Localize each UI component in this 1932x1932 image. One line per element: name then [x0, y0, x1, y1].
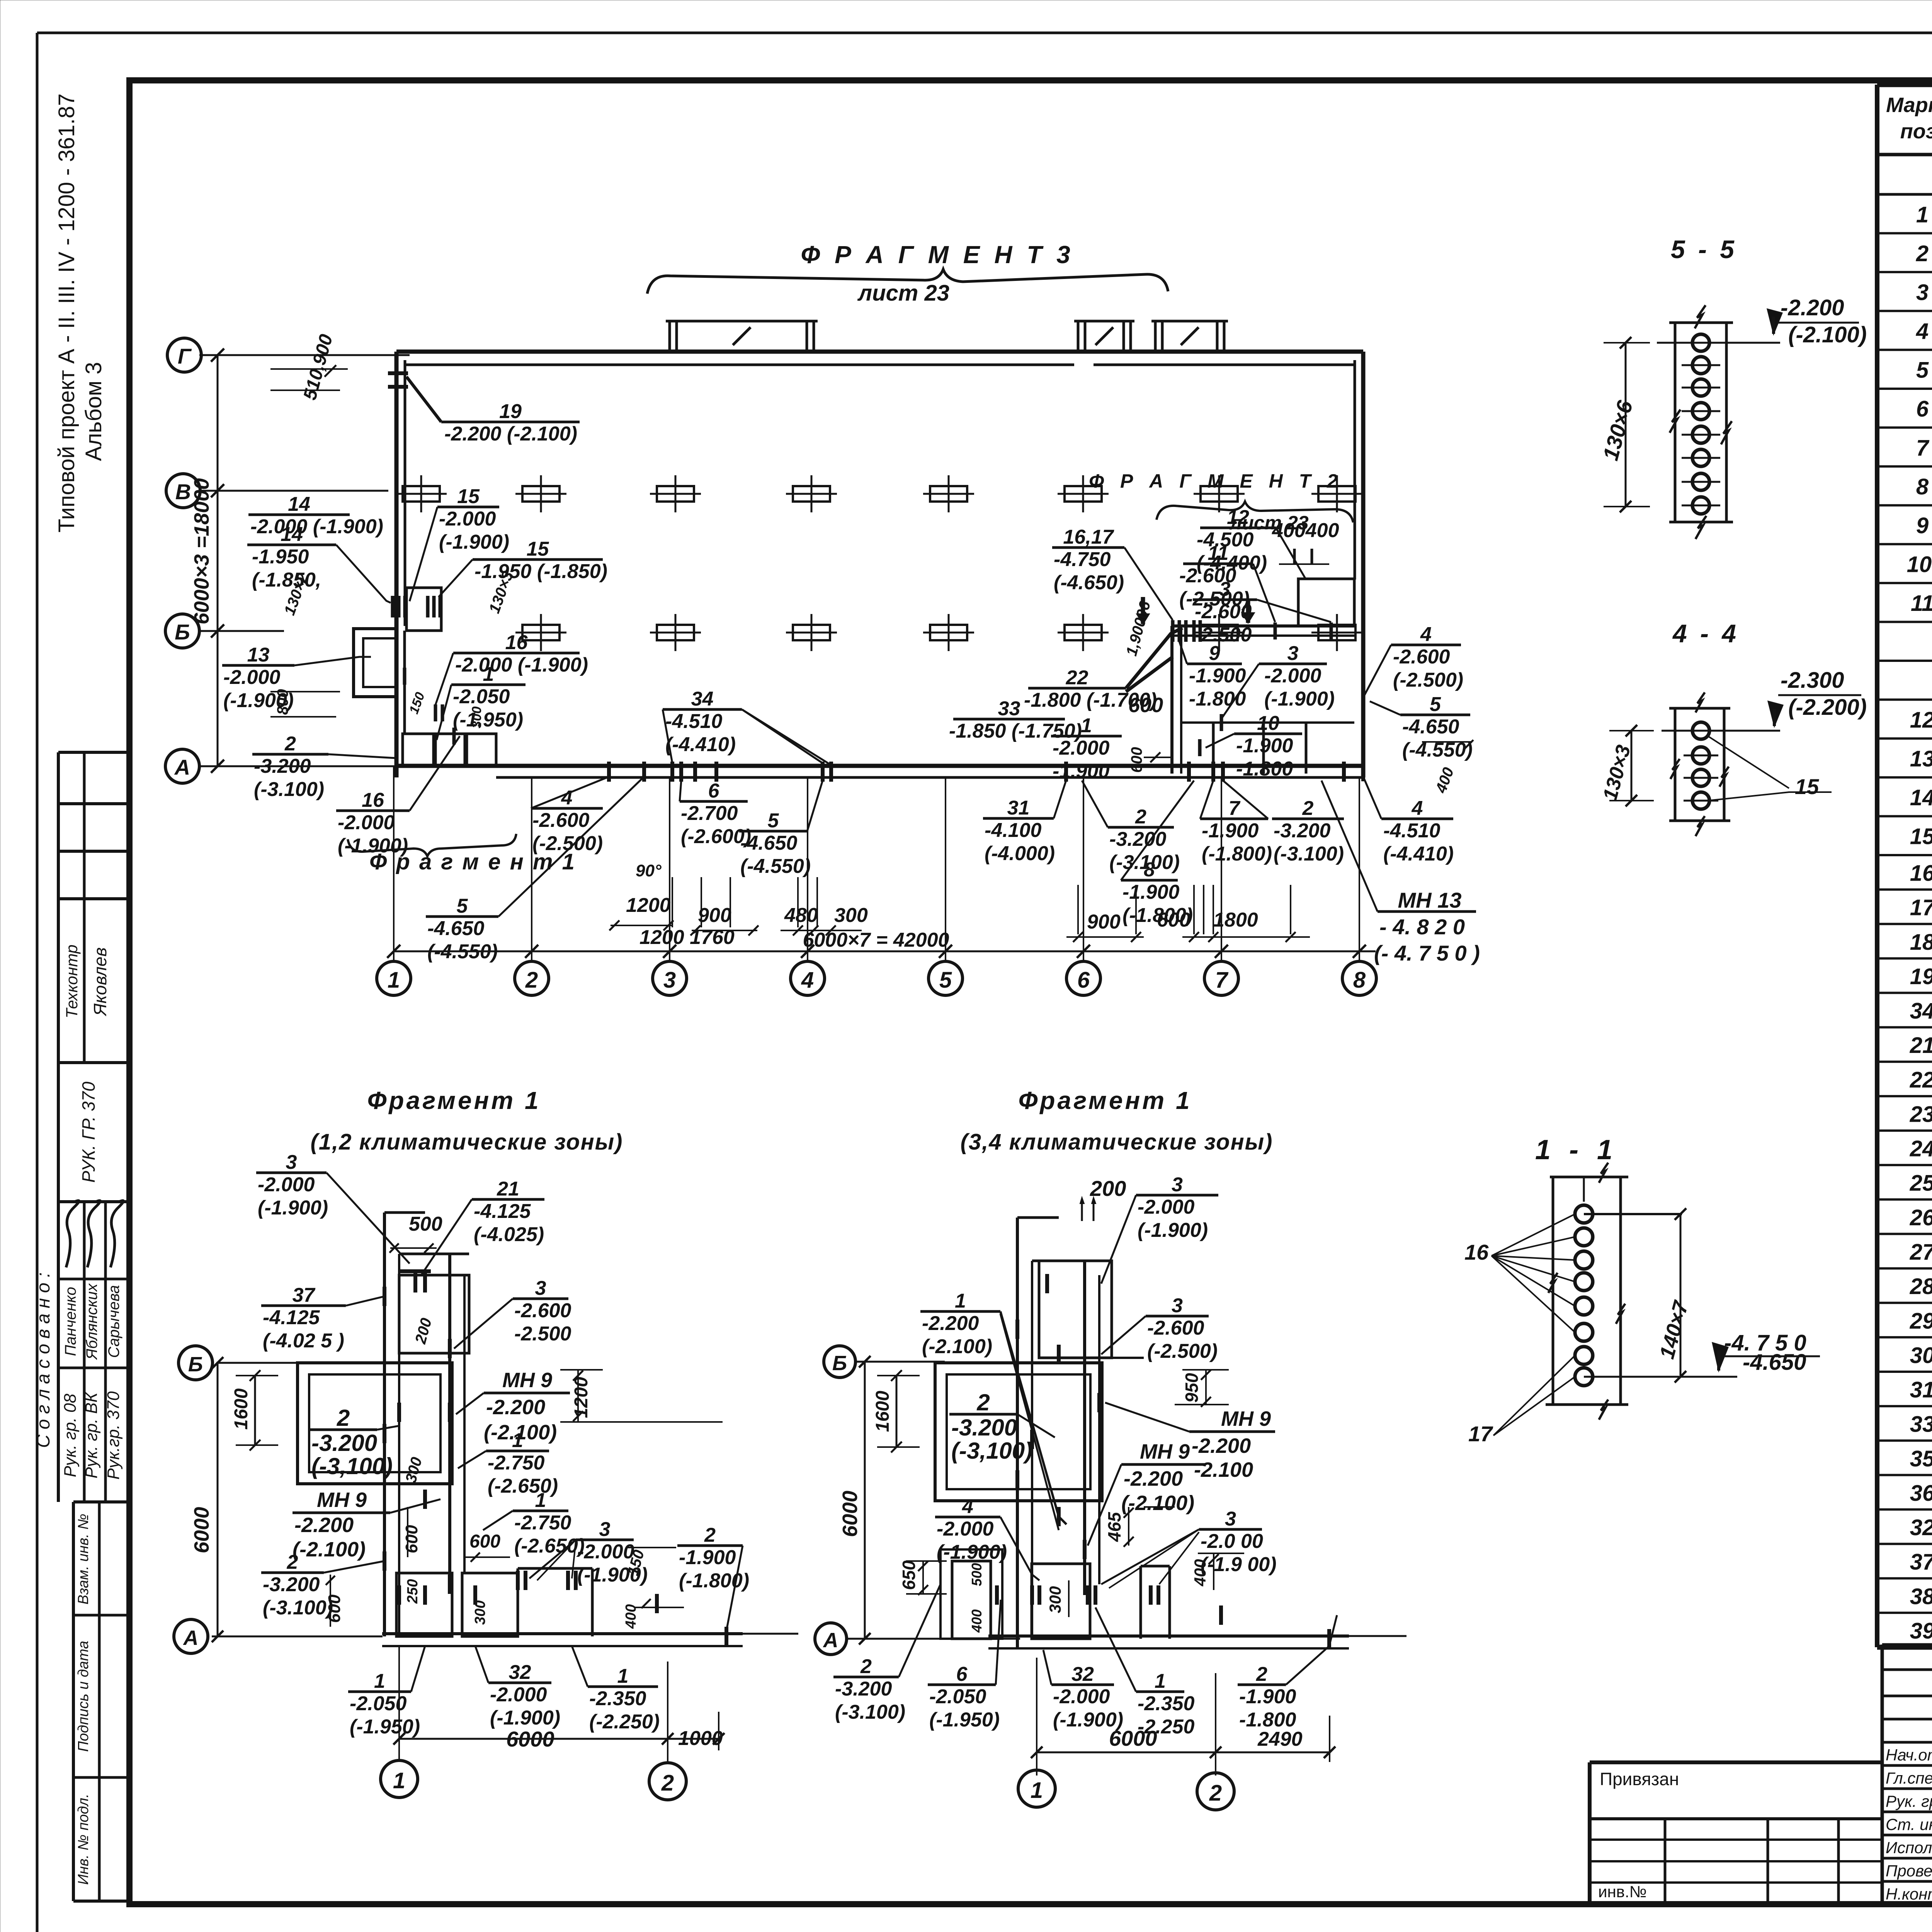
svg-text:12: 12	[1910, 707, 1932, 733]
svg-text:600: 600	[402, 1525, 421, 1553]
svg-text:Рук. гр. ВК: Рук. гр. ВК	[82, 1392, 101, 1479]
frag12 ann 1 -2.350	[588, 1685, 658, 1688]
svg-text:-2.200: -2.200	[1124, 1467, 1183, 1490]
svg-text:16: 16	[1464, 1240, 1489, 1264]
svg-text:1600: 1600	[231, 1388, 252, 1430]
ann 16,17	[1052, 546, 1124, 549]
frag34 ann 2 bottom-left	[833, 1676, 899, 1679]
svg-text:6: 6	[1916, 396, 1929, 422]
svg-text:4: 4	[1916, 319, 1929, 344]
frag34 ann 3 top	[1136, 1194, 1218, 1197]
svg-text:14: 14	[281, 523, 303, 546]
frag12 walls	[383, 1213, 386, 1636]
svg-text:3: 3	[1225, 1508, 1236, 1530]
section 1-1 pipe circles	[1575, 1205, 1593, 1223]
plan bottom wall (double line)	[396, 764, 1363, 768]
ann 3 f2b	[1259, 663, 1327, 665]
svg-text:-2.000: -2.000	[439, 508, 496, 530]
svg-text:950: 950	[1182, 1373, 1202, 1403]
svg-text:90°: 90°	[636, 861, 662, 880]
svg-text:465: 465	[1104, 1512, 1124, 1542]
svg-text:-2.000: -2.000	[1264, 665, 1321, 687]
ann 1 left	[451, 684, 526, 686]
svg-text:24: 24	[1910, 1136, 1932, 1162]
svg-text:-2.050: -2.050	[350, 1692, 407, 1715]
svg-text:Б: Б	[832, 1352, 847, 1375]
ann 9	[1187, 663, 1242, 665]
thick leader from node 22	[1126, 628, 1182, 688]
svg-text:-1.800: -1.800	[1189, 688, 1246, 710]
svg-text:10.: 10.	[1907, 552, 1932, 577]
svg-text:-2.200 (-2.100): -2.200 (-2.100)	[444, 423, 577, 445]
svg-text:-2.200: -2.200	[1192, 1434, 1251, 1458]
column symbols row В and Б	[403, 486, 440, 502]
frag34 ann 6	[928, 1684, 996, 1686]
svg-text:(-1.950): (-1.950)	[453, 709, 523, 731]
svg-text:(-1.900): (-1.900)	[1264, 688, 1335, 710]
svg-text:(-1.800): (-1.800)	[1202, 843, 1272, 865]
svg-text:-2.200: -2.200	[922, 1312, 979, 1335]
frag34 walls	[1016, 1218, 1019, 1648]
svg-text:37: 37	[293, 1284, 316, 1306]
svg-text:-1.950 (-1.850): -1.950 (-1.850)	[474, 560, 607, 583]
svg-text:-2.300: -2.300	[1781, 668, 1844, 693]
svg-text:1: 1	[955, 1290, 966, 1312]
svg-text:34: 34	[1910, 998, 1932, 1024]
svg-text:-2.600: -2.600	[1195, 600, 1252, 623]
svg-text:-4.100: -4.100	[985, 819, 1042, 842]
svg-text:-2.000 (-1.900): -2.000 (-1.900)	[250, 515, 383, 538]
frag34 bottom rooms	[952, 1561, 991, 1639]
ann 33	[953, 718, 1065, 721]
svg-text:(-4.025): (-4.025)	[474, 1223, 544, 1246]
svg-text:1600: 1600	[872, 1391, 893, 1432]
svg-text:(-1.850,: (-1.850,	[252, 569, 321, 591]
svg-text:4 - 4: 4 - 4	[1672, 619, 1739, 648]
axis line Г	[199, 354, 410, 356]
frag12 ann 3	[256, 1172, 327, 1174]
svg-text:600: 600	[469, 1531, 500, 1552]
svg-text:-2.000 (-1.900): -2.000 (-1.900)	[455, 654, 588, 676]
svg-text:4: 4	[962, 1495, 973, 1518]
privyazan block	[1590, 1760, 1882, 1764]
svg-text:300: 300	[469, 706, 484, 728]
svg-text:16,17: 16,17	[1063, 526, 1114, 548]
bottom-left room cluster	[406, 588, 441, 631]
svg-text:Привязан: Привязан	[1600, 1769, 1679, 1789]
frag34 node bars	[1045, 1274, 1049, 1293]
svg-text:(-4.550): (-4.550)	[427, 940, 498, 963]
svg-text:-2.600: -2.600	[532, 809, 590, 832]
ann 14 a	[248, 514, 350, 516]
svg-text:25: 25	[1910, 1171, 1932, 1196]
svg-text:1: 1	[1031, 1778, 1043, 1803]
svg-text:38: 38	[1910, 1584, 1932, 1609]
svg-text:С о г л а с о в а н о :: С о г л а с о в а н о :	[33, 1272, 54, 1448]
frag12 ann 21	[472, 1198, 544, 1201]
svg-text:400: 400	[969, 1609, 985, 1633]
svg-text:(-1.900): (-1.900)	[1138, 1219, 1208, 1242]
svg-text:28: 28	[1910, 1274, 1932, 1299]
ann 7	[1200, 818, 1268, 820]
section 4-4 elevation -2.300	[1778, 694, 1861, 696]
svg-text:36: 36	[1910, 1481, 1932, 1506]
svg-text:6000: 6000	[838, 1491, 862, 1537]
svg-text:29: 29	[1910, 1308, 1932, 1333]
svg-text:-3.200: -3.200	[254, 755, 311, 777]
ann 12	[1200, 527, 1276, 529]
frag12 axis А	[212, 1636, 383, 1638]
svg-text:1 - 1: 1 - 1	[1535, 1134, 1618, 1165]
svg-text:10: 10	[1257, 712, 1279, 735]
svg-text:(-4.550): (-4.550)	[740, 855, 811, 878]
plan outer walls (double line)	[396, 350, 1363, 354]
frag12 ann 2 -3.200 bottom	[261, 1571, 324, 1574]
svg-text:(-1.950): (-1.950)	[350, 1716, 420, 1738]
svg-text:Исполн.: Исполн.	[1886, 1838, 1932, 1857]
svg-text:500: 500	[969, 1563, 985, 1586]
left vertical dimension line 6000x3=18000	[217, 355, 219, 766]
svg-text:(-3.100): (-3.100)	[835, 1701, 905, 1723]
svg-text:-2.350: -2.350	[589, 1687, 646, 1710]
svg-text:22: 22	[1066, 667, 1088, 689]
ann 4 bottom	[531, 807, 603, 810]
svg-text:1: 1	[1081, 714, 1092, 737]
svg-text:Подпись и дата: Подпись и дата	[75, 1641, 92, 1752]
frag12 ann 2 room	[310, 1429, 377, 1431]
fragment2 upper-right box	[1298, 579, 1354, 626]
svg-text:(-2.500): (-2.500)	[1393, 669, 1463, 691]
ann 11	[1183, 563, 1253, 565]
svg-text:1: 1	[393, 1768, 405, 1793]
svg-text:-2.050: -2.050	[929, 1685, 986, 1708]
svg-text:-1.900: -1.900	[679, 1546, 736, 1569]
svg-text:1: 1	[535, 1489, 546, 1512]
parts table header row line	[1877, 153, 1932, 156]
svg-text:(-2.250): (-2.250)	[589, 1711, 660, 1733]
title block signature grid	[1881, 1645, 1884, 1904]
ann 15 a	[437, 506, 499, 509]
svg-text:Сарычева: Сарычева	[105, 1285, 122, 1358]
svg-text:39: 39	[1910, 1618, 1932, 1643]
svg-text:21: 21	[1910, 1033, 1932, 1058]
svg-text:600: 600	[1128, 747, 1145, 773]
section 5-5 break marks	[1695, 305, 1706, 328]
section 5-5 dim line 130x6	[1625, 343, 1627, 507]
frag12 axis Б	[216, 1362, 305, 1364]
bottom axis circles 1-8	[377, 961, 411, 995]
ann 1 right	[1051, 735, 1122, 738]
left protrusion room (fragment1 area)	[354, 629, 396, 697]
svg-text:8: 8	[1353, 968, 1366, 993]
ann 8	[1121, 879, 1178, 882]
svg-text:400400: 400400	[1272, 519, 1339, 542]
svg-text:11: 11	[1208, 542, 1229, 565]
svg-text:33: 33	[1910, 1412, 1932, 1437]
svg-text:6000: 6000	[506, 1727, 554, 1751]
svg-text:1000: 1000	[678, 1727, 723, 1750]
svg-text:-4.125: -4.125	[474, 1200, 531, 1223]
svg-text:-2.750: -2.750	[514, 1512, 571, 1534]
frag12 ann 2 -1.900	[677, 1544, 743, 1547]
frag12 axis circles 1 2	[381, 1760, 418, 1798]
svg-text:1: 1	[1155, 1670, 1166, 1692]
svg-text:МН 9: МН 9	[1221, 1407, 1271, 1430]
svg-text:3: 3	[1287, 642, 1299, 665]
svg-text:11: 11	[1911, 591, 1932, 616]
section 4-4 break marks	[1696, 692, 1705, 713]
frag34 ann 4	[935, 1516, 1000, 1519]
svg-text:5: 5	[939, 968, 952, 993]
svg-text:Провер.: Провер.	[1886, 1862, 1932, 1880]
svg-text:Б: Б	[188, 1353, 203, 1376]
svg-text:РУК. ГР. 370: РУК. ГР. 370	[78, 1082, 99, 1183]
svg-text:600: 600	[1128, 694, 1163, 717]
svg-text:-2.350: -2.350	[1138, 1692, 1195, 1715]
section 4-4 pipe circles	[1692, 722, 1709, 739]
axis line Б	[199, 630, 284, 632]
svg-text:-3.200: -3.200	[1274, 820, 1331, 842]
axis circle В	[166, 474, 200, 508]
svg-text:250: 250	[405, 1579, 421, 1604]
svg-text:5: 5	[768, 810, 779, 832]
ann 16 top	[453, 652, 580, 655]
svg-text:-1.800: -1.800	[1236, 758, 1293, 780]
svg-text:5: 5	[1430, 693, 1441, 716]
ann 5 right	[1400, 714, 1470, 716]
frag34 vert dim 6000	[864, 1362, 866, 1639]
parts table row lines	[1877, 232, 1932, 235]
svg-text:26: 26	[1910, 1205, 1932, 1230]
svg-text:(-4.000): (-4.000)	[985, 842, 1055, 865]
svg-text:3: 3	[1172, 1294, 1183, 1317]
axis line А	[199, 765, 396, 767]
svg-text:2: 2	[1209, 1781, 1222, 1806]
section 1-1 walls	[1552, 1177, 1554, 1405]
svg-text:(-2.100): (-2.100)	[293, 1538, 366, 1561]
svg-text:-2.200: -2.200	[1781, 295, 1844, 320]
svg-text:Техконтр: Техконтр	[63, 945, 81, 1019]
svg-text:300: 300	[472, 1600, 488, 1625]
svg-text:17: 17	[1468, 1422, 1493, 1446]
svg-text:6000: 6000	[190, 1507, 213, 1553]
svg-text:-2.500: -2.500	[514, 1323, 571, 1345]
svg-text:9: 9	[1209, 642, 1220, 665]
svg-text:5: 5	[1916, 358, 1929, 383]
frag34 axis Б	[855, 1361, 945, 1363]
svg-text:Панченко: Панченко	[62, 1287, 79, 1356]
svg-text:32: 32	[1910, 1515, 1932, 1540]
frag34 ann 2 -1.900	[1238, 1684, 1286, 1686]
svg-text:(-4.410): (-4.410)	[1383, 843, 1454, 865]
svg-text:-2.000: -2.000	[1138, 1196, 1195, 1218]
frag12 ann 37	[261, 1304, 346, 1307]
ann 31	[983, 817, 1054, 820]
ann 2 left	[252, 753, 328, 756]
svg-text:(-4.650): (-4.650)	[1054, 571, 1124, 594]
svg-text:-4.510: -4.510	[1383, 820, 1440, 842]
ann 22	[1028, 687, 1126, 690]
svg-text:-2.600: -2.600	[514, 1299, 571, 1322]
svg-text:32: 32	[1071, 1663, 1094, 1685]
sidebar table lower block	[73, 1500, 129, 1503]
outer sheet border	[37, 32, 1932, 34]
svg-text:-1.900: -1.900	[1236, 735, 1293, 757]
frag12 ann 3 -2.000	[576, 1539, 634, 1541]
down arrow near fragment2	[1141, 597, 1145, 624]
axis line В	[200, 490, 388, 492]
svg-text:31: 31	[1910, 1378, 1932, 1403]
svg-text:Рук.гр. 370: Рук.гр. 370	[104, 1391, 123, 1480]
ann 3 f2a	[1193, 599, 1257, 601]
frag34 ann 32	[1051, 1684, 1114, 1686]
svg-text:800: 800	[274, 689, 291, 715]
svg-text:-4.510: -4.510	[665, 710, 723, 733]
svg-text:3: 3	[535, 1277, 546, 1299]
frag34 ann 2 room	[949, 1413, 1017, 1416]
svg-text:-2.750: -2.750	[488, 1452, 545, 1474]
svg-text:3: 3	[599, 1518, 611, 1541]
svg-text:3: 3	[663, 968, 676, 993]
svg-text:-2.000: -2.000	[577, 1541, 634, 1563]
svg-text:Нач.отд: Нач.отд	[1886, 1746, 1932, 1764]
svg-text:-3.200: -3.200	[311, 1430, 377, 1456]
svg-text:(1,2 климатические зоны): (1,2 климатические зоны)	[311, 1129, 623, 1155]
fragment 3 brace	[647, 269, 1168, 294]
section 1-1 break marks	[1599, 1163, 1608, 1183]
svg-text:-1.900: -1.900	[1239, 1685, 1296, 1708]
svg-text:-3.200: -3.200	[835, 1678, 892, 1700]
section 1-1 elevation -4.750	[1722, 1355, 1820, 1357]
svg-text:16: 16	[1910, 861, 1932, 886]
svg-text:27: 27	[1910, 1240, 1932, 1265]
svg-text:(-1.800): (-1.800)	[679, 1570, 749, 1592]
svg-text:МН 13: МН 13	[1398, 888, 1462, 912]
svg-text:-2.000: -2.000	[490, 1684, 547, 1706]
svg-text:(-1.9 00): (-1.9 00)	[1201, 1553, 1277, 1576]
fragment2 interior walls (right side)	[1170, 626, 1173, 774]
svg-text:300: 300	[1046, 1586, 1064, 1613]
svg-text:(-1.950): (-1.950)	[929, 1709, 1000, 1731]
svg-text:-2.200: -2.200	[294, 1514, 354, 1537]
svg-text:2: 2	[287, 1551, 298, 1573]
frag12 bottom rooms	[396, 1573, 452, 1636]
svg-text:1: 1	[483, 663, 494, 685]
svg-text:-2.000: -2.000	[223, 666, 281, 689]
frag12 ann 32	[488, 1682, 551, 1684]
svg-text:7: 7	[1229, 797, 1241, 820]
svg-text:2: 2	[860, 1655, 872, 1678]
sidebar signatures row (squiggles)	[66, 1201, 79, 1267]
svg-text:1800: 1800	[1213, 909, 1258, 931]
svg-text:2: 2	[525, 968, 538, 993]
svg-text:8: 8	[1144, 859, 1155, 881]
svg-text:-4.650: -4.650	[427, 917, 485, 940]
svg-text:Фрагмент 1: Фрагмент 1	[367, 1087, 541, 1114]
svg-text:-4.750: -4.750	[1054, 548, 1111, 571]
svg-text:(-2.650): (-2.650)	[488, 1475, 558, 1497]
svg-text:2: 2	[976, 1389, 990, 1415]
ann 5 bottom a	[426, 915, 498, 918]
ann 19	[441, 421, 580, 423]
svg-text:Типовой проект А - II. III.: Типовой проект А - II. III. IV - 1200 - …	[54, 94, 79, 532]
sidebar soglasovano block (3 columns)	[83, 1202, 86, 1502]
frag12 bottom dim line	[399, 1738, 719, 1740]
svg-text:7: 7	[1916, 435, 1930, 461]
svg-text:Ф Р А Г М Е Н Т 3: Ф Р А Г М Е Н Т 3	[801, 241, 1074, 269]
svg-text:37: 37	[1910, 1549, 1932, 1575]
svg-text:-3.200: -3.200	[263, 1573, 320, 1596]
svg-text:15: 15	[527, 538, 549, 560]
svg-text:Н.контр: Н.контр	[1886, 1885, 1932, 1903]
svg-text:Инв. № подл.: Инв. № подл.	[75, 1794, 92, 1885]
svg-text:15: 15	[1910, 824, 1932, 849]
svg-text:Марка,: Марка,	[1886, 94, 1932, 117]
svg-text:4: 4	[1420, 623, 1432, 646]
svg-text:200: 200	[1090, 1176, 1126, 1201]
svg-text:3: 3	[286, 1151, 297, 1173]
svg-text:(-1.900): (-1.900)	[937, 1541, 1007, 1563]
svg-text:19: 19	[499, 400, 522, 423]
svg-text:-2.500: -2.500	[1195, 624, 1252, 646]
svg-text:- 4. 8 2 0: - 4. 8 2 0	[1379, 915, 1465, 939]
svg-text:14: 14	[288, 493, 310, 515]
svg-text:22: 22	[1910, 1067, 1932, 1092]
svg-text:лист 23: лист 23	[857, 281, 949, 306]
svg-text:19: 19	[1910, 964, 1932, 989]
frag12 ann 1 -2.750	[486, 1450, 549, 1452]
svg-text:2: 2	[1256, 1663, 1267, 1685]
svg-text:-4.650: -4.650	[740, 832, 798, 854]
ann 4 right-bot	[1381, 818, 1453, 820]
ann 2 right	[1272, 818, 1344, 820]
down arrow right	[1246, 600, 1250, 623]
svg-text:2: 2	[1302, 797, 1314, 820]
svg-text:Ф р а г м е н т 1: Ф р а г м е н т 1	[369, 849, 576, 874]
section 1-1 top dim	[1584, 1213, 1682, 1215]
svg-text:(-3,100): (-3,100)	[951, 1438, 1032, 1464]
svg-text:-2.000: -2.000	[1053, 737, 1110, 759]
svg-text:600: 600	[325, 1594, 344, 1623]
svg-text:(- 4. 7 5 0 ): (- 4. 7 5 0 )	[1374, 941, 1480, 965]
bottom axis verticals to circles	[393, 766, 395, 961]
svg-text:15: 15	[1795, 774, 1819, 799]
svg-text:-2.000: -2.000	[1053, 1685, 1110, 1708]
svg-text:(-2.100): (-2.100)	[922, 1335, 992, 1358]
svg-text:900: 900	[698, 904, 731, 927]
svg-text:6: 6	[708, 780, 720, 802]
section 4-4 dim 130x3	[1631, 731, 1633, 801]
horizontal dimension line 6000x7=42000	[394, 951, 1376, 952]
svg-text:6000×3 =18000: 6000×3 =18000	[190, 478, 213, 624]
svg-text:Ст. инж.: Ст. инж.	[1886, 1815, 1932, 1833]
svg-text:-2.100: -2.100	[1194, 1458, 1253, 1481]
svg-text:-4.650: -4.650	[1743, 1350, 1806, 1375]
svg-text:6: 6	[1077, 968, 1090, 993]
node marks fragment2 cluster	[1171, 620, 1175, 642]
svg-text:-2.700: -2.700	[681, 802, 738, 825]
svg-text:-1.900: -1.900	[1053, 760, 1110, 782]
svg-text:инв.№: инв.№	[1598, 1883, 1647, 1901]
svg-text:31: 31	[1007, 797, 1030, 819]
ann 4 right-top	[1391, 644, 1461, 646]
svg-text:400: 400	[1191, 1559, 1209, 1587]
svg-text:32: 32	[509, 1661, 531, 1684]
svg-text:Ф Р А Г М Е Н Т 2: Ф Р А Г М Е Н Т 2	[1089, 470, 1343, 492]
svg-text:А: А	[174, 755, 190, 779]
svg-text:2: 2	[284, 733, 296, 755]
svg-text:4: 4	[561, 787, 573, 809]
